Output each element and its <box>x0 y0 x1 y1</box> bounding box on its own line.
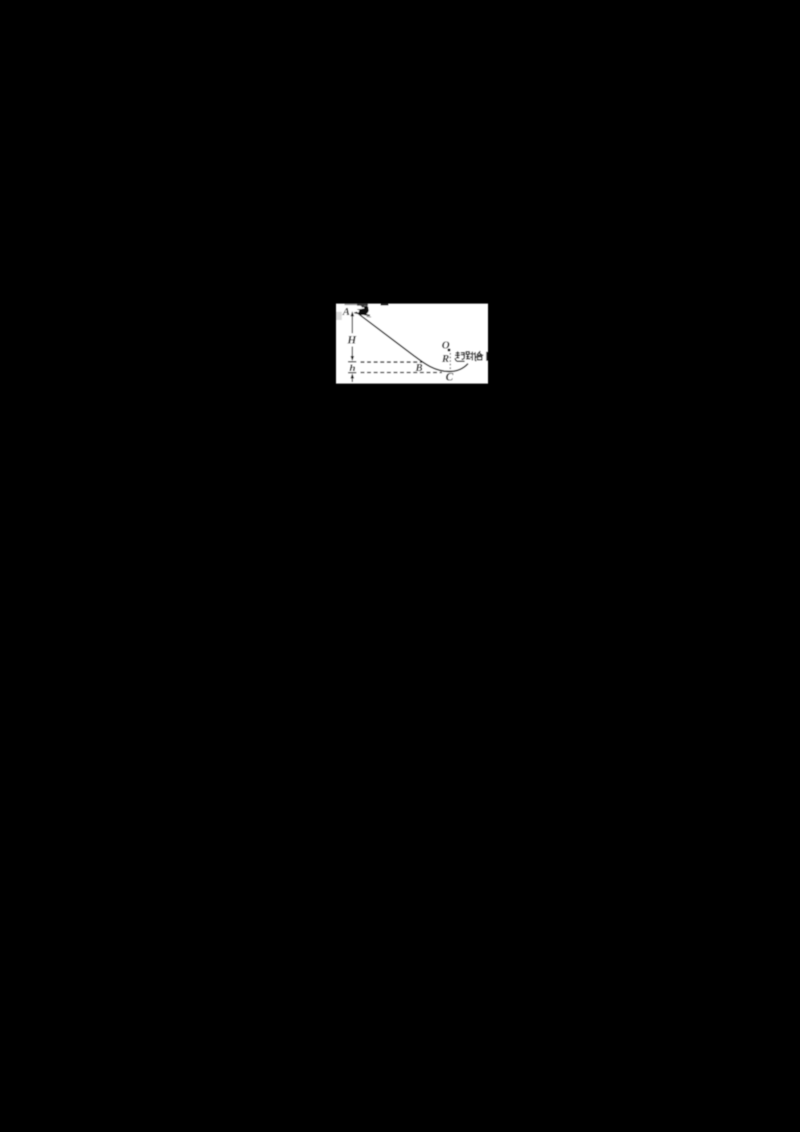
hanzi 跳 (tiao) <box>466 352 477 361</box>
left edge gray patch <box>336 312 342 320</box>
top edge video artifact: light gray bar <box>345 304 358 306</box>
svg-text:H: H <box>346 335 357 347</box>
top edge video artifact: dark gray bar <box>357 304 368 306</box>
tick at C level <box>348 372 356 374</box>
top edge video artifact: black bar <box>381 304 389 306</box>
centre dot <box>448 349 451 352</box>
svg-text:C: C <box>446 372 454 384</box>
white diagram panel <box>336 304 488 384</box>
ski slope curve A-B-C with upturn <box>356 312 468 372</box>
svg-text:R: R <box>441 353 449 365</box>
dotted radius line O to C <box>449 353 451 371</box>
dashed line at C level <box>361 372 443 374</box>
tick at B level <box>348 361 356 363</box>
hanzi 台 (tai) <box>477 351 484 360</box>
dashed line at B level <box>361 361 423 363</box>
H dimension upper arrow (points up) <box>351 315 353 334</box>
cropped stroke of 4th character at panel edge <box>486 352 488 361</box>
H dimension lower arrow (points down) <box>351 347 353 358</box>
svg-text:A: A <box>342 306 350 318</box>
svg-text:B: B <box>415 363 423 374</box>
skier figure <box>354 304 371 318</box>
hanzi 起 (qi) <box>455 351 465 361</box>
h dimension bottom arrow (points up) <box>351 373 355 378</box>
